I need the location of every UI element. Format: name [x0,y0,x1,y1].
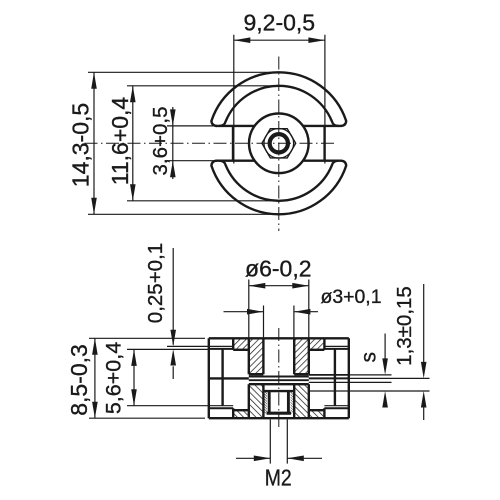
svg-text:M2: M2 [265,465,292,491]
svg-text:3,6+0,5: 3,6+0,5 [149,107,172,176]
svg-text:9,2-0,5: 9,2-0,5 [243,10,315,36]
svg-text:8,5-0,3: 8,5-0,3 [66,344,92,416]
svg-text:14,3-0,5: 14,3-0,5 [68,103,94,187]
svg-text:ø6-0,2: ø6-0,2 [245,256,311,282]
svg-text:11,6+0,4: 11,6+0,4 [107,97,133,186]
svg-text:0,25+0,1: 0,25+0,1 [144,243,167,323]
svg-text:1,3±0,15: 1,3±0,15 [393,286,416,366]
svg-text:5,6+0,4: 5,6+0,4 [102,342,126,414]
svg-text:ø3+0,1: ø3+0,1 [321,287,382,308]
svg-text:s: s [358,352,381,363]
